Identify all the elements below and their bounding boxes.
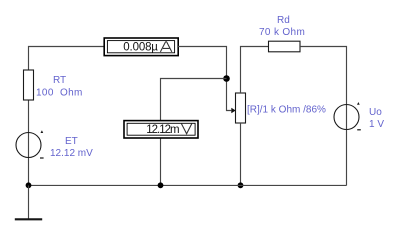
wire bottom rail — [29, 184, 347, 186]
ammeter U-A (outer box) — [104, 38, 178, 56]
svg-text:ET: ET — [65, 136, 78, 147]
svg-text:12.12 mV: 12.12 mV — [50, 148, 93, 159]
ammeter unit A — [160, 42, 171, 52]
ammeter inner frame — [107, 41, 174, 53]
Uo minus marker — [357, 129, 361, 131]
voltmeter inner frame — [127, 123, 195, 135]
svg-text:Rd: Rd — [277, 15, 290, 26]
source Uo (circle) — [334, 105, 359, 130]
ET plus marker — [41, 130, 44, 133]
wiper arrowhead — [231, 108, 235, 114]
wire voltmeter tap (from wiper node to voltmeter top) — [161, 79, 227, 121]
potentiometer [R] body — [236, 93, 246, 123]
wire pot top up and right to Rd — [241, 47, 269, 94]
voltmeter U-V (outer box) — [124, 121, 198, 138]
source ET (circle) — [16, 133, 41, 158]
wire ammeter right, down to wiper node and to arrow — [178, 47, 231, 111]
resistor RT — [24, 70, 34, 100]
wire ground stem — [28, 185, 30, 219]
svg-text:12.12m: 12.12m — [146, 124, 179, 136]
svg-text:Uo: Uo — [369, 107, 382, 118]
ET minus marker — [40, 157, 44, 159]
svg-text:RT: RT — [53, 75, 66, 86]
wire left vertical RT to ground rail (through ET) — [28, 100, 30, 185]
svg-text:[R]/1 k Ohm /86%: [R]/1 k Ohm /86% — [247, 105, 326, 116]
node rail left junction dot — [26, 182, 32, 188]
svg-text:70 k Ohm: 70 k Ohm — [259, 27, 305, 38]
wire pot bottom to rail — [240, 123, 242, 185]
voltmeter unit V — [181, 124, 191, 134]
resistor Rd — [269, 41, 301, 52]
node voltmeter-rail junction dot — [158, 182, 164, 188]
ground — [15, 218, 42, 220]
wire Rd right and down to rail (through Uo) — [300, 47, 347, 186]
node wiper junction dot — [223, 75, 230, 82]
svg-text:100 Ohm: 100 Ohm — [36, 88, 83, 99]
svg-text:0.008µ: 0.008µ — [123, 42, 158, 54]
wire voltmeter bottom to rail — [160, 138, 162, 185]
svg-text:1 V: 1 V — [369, 119, 384, 130]
Uo plus marker — [357, 102, 360, 105]
node pot-rail junction dot — [238, 182, 244, 188]
wire top-left from RT up to ammeter — [29, 47, 105, 71]
